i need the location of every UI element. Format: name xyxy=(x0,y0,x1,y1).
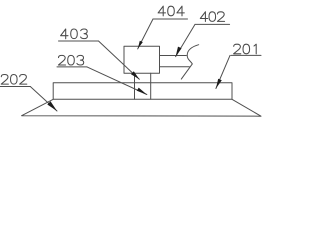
plate 201 (top slab rectangle) xyxy=(53,83,232,100)
label 202 underline xyxy=(0,86,30,88)
rod 403 left edge (column between box and plate) xyxy=(134,73,136,99)
shaft 402 top line xyxy=(160,55,187,57)
label 203 underline xyxy=(57,66,87,68)
box 404 (actuator body) xyxy=(124,46,160,73)
text 402 xyxy=(200,12,224,22)
base 202 (trapezoid pedestal) xyxy=(22,99,261,116)
rod 403 right edge xyxy=(150,73,152,99)
arrowhead 201 xyxy=(216,79,222,89)
text 404 xyxy=(158,6,184,16)
label 402 underline xyxy=(195,23,230,25)
leader 403 xyxy=(99,41,140,79)
arrowhead 202 xyxy=(47,101,57,111)
leader 201 xyxy=(216,55,230,88)
text 403 xyxy=(61,29,88,39)
text 202 xyxy=(1,75,27,85)
label 201 underline xyxy=(231,54,261,56)
arrowhead 403 xyxy=(131,71,139,79)
arrowhead 203 xyxy=(137,88,147,95)
shaft 402 bottom line xyxy=(160,66,190,68)
leader 402 xyxy=(176,24,195,56)
arrowhead 404 xyxy=(138,41,143,49)
leader 202 xyxy=(30,87,57,112)
shaft break symbol (S-curve) xyxy=(181,45,198,79)
arrowhead 402 xyxy=(176,47,182,57)
text 203 xyxy=(58,55,83,65)
label 404 underline xyxy=(153,18,188,20)
label 403 underline xyxy=(59,40,99,42)
leader 203 xyxy=(87,67,147,95)
text 201 xyxy=(234,44,257,54)
leader 404 xyxy=(138,19,153,49)
